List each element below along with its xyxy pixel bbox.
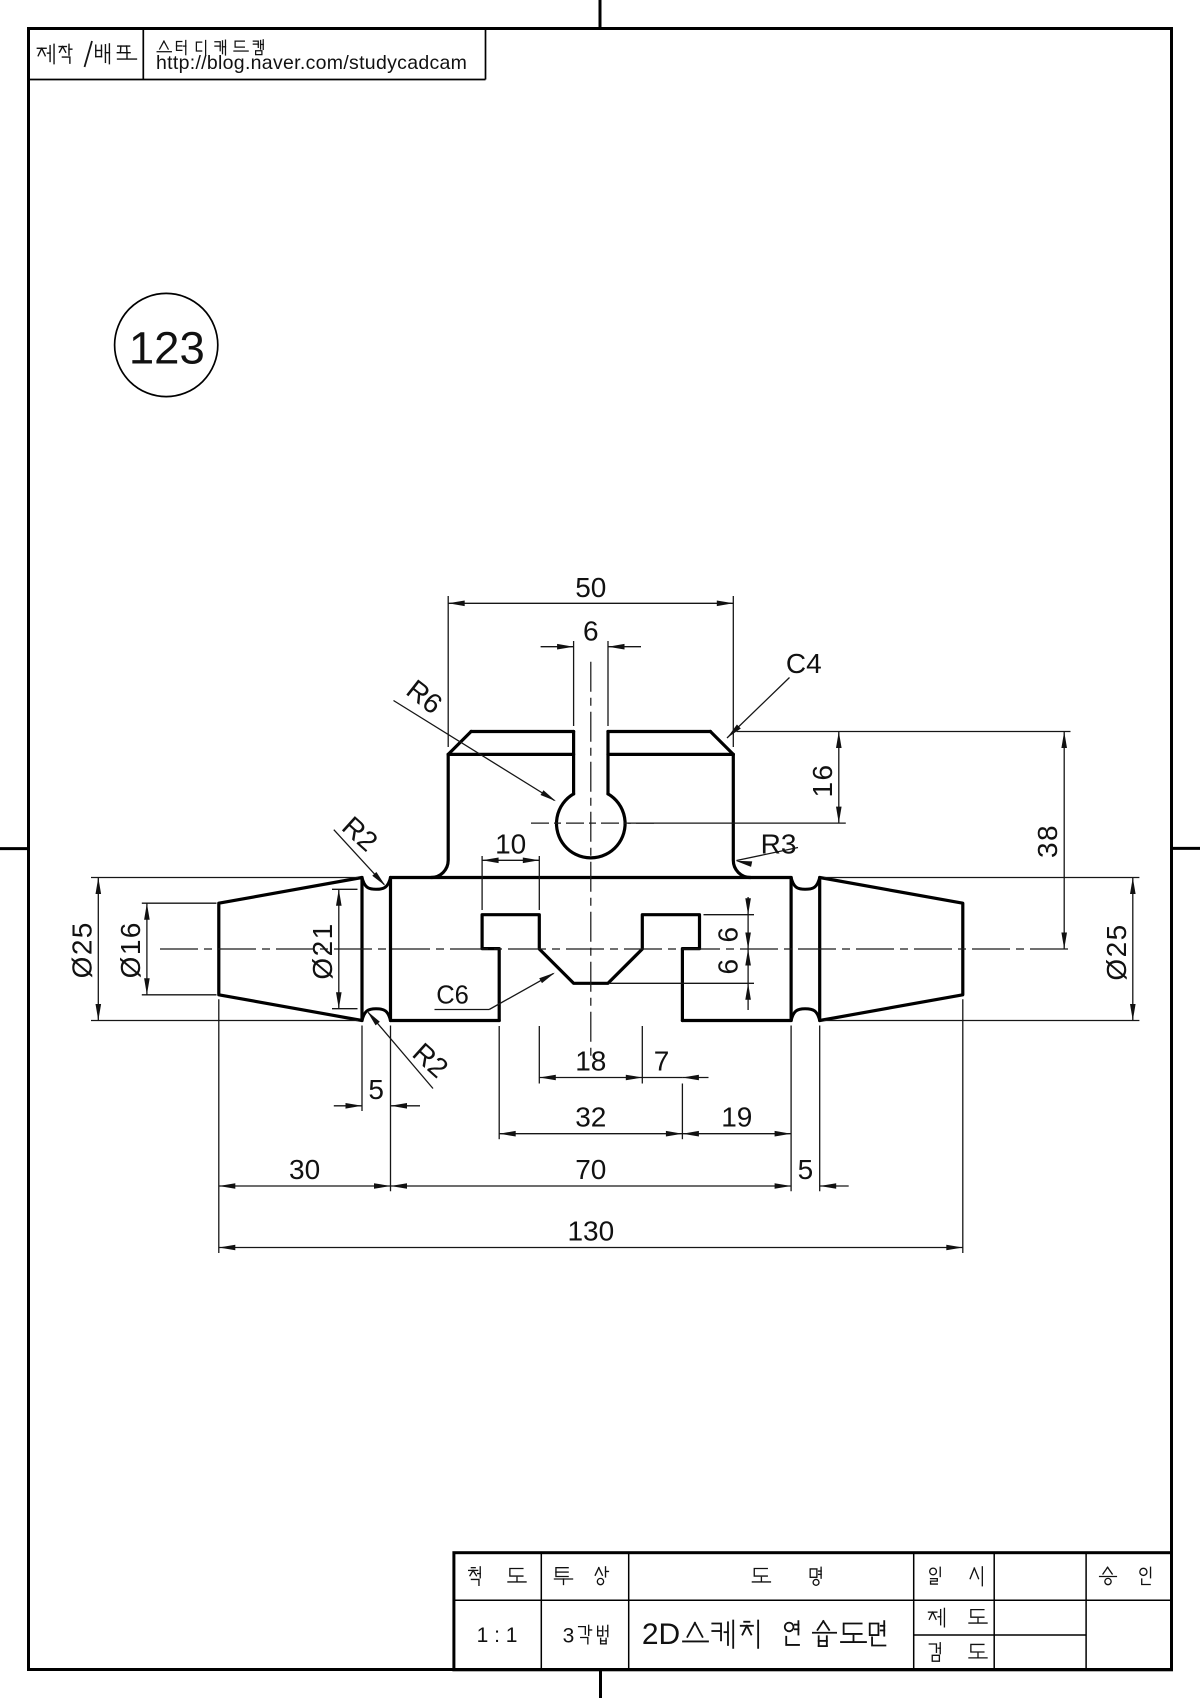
svg-text:Ø16: Ø16 <box>115 921 146 978</box>
dim diameter 21 <box>338 889 340 1008</box>
left taper outline <box>219 878 362 1021</box>
svg-text:C4: C4 <box>786 648 822 679</box>
flange left side with R3 fillet <box>431 754 448 877</box>
svg-text:19: 19 <box>721 1102 752 1133</box>
svg-text:70: 70 <box>575 1154 606 1185</box>
svg-text:Ø21: Ø21 <box>307 922 338 979</box>
dim 6 slot <box>541 646 574 648</box>
title table header 도명 <box>752 1569 770 1582</box>
dim diameter 16 extension lines <box>142 902 217 904</box>
right groove walls <box>791 878 820 1021</box>
vertical centerline through slot <box>590 662 592 1062</box>
centering tick right <box>1172 847 1200 850</box>
title table header 척도 <box>469 1567 481 1585</box>
dim diameter 16 <box>146 903 148 995</box>
dim 32 <box>499 1133 682 1135</box>
svg-text:123: 123 <box>129 323 205 374</box>
title table column lines <box>540 1553 542 1670</box>
dim 6 6 line and arrows <box>747 897 749 1010</box>
svg-text:2D: 2D <box>642 1618 680 1651</box>
dim 7 <box>642 1077 682 1079</box>
svg-text:3: 3 <box>563 1625 575 1648</box>
svg-text:5: 5 <box>798 1154 814 1185</box>
left groove relief top R2 <box>362 878 391 890</box>
label C4 with leader <box>727 678 790 739</box>
svg-text:18: 18 <box>575 1046 606 1077</box>
svg-text:5: 5 <box>368 1074 384 1105</box>
title table header 일시 <box>930 1567 941 1584</box>
svg-text:6: 6 <box>583 616 599 647</box>
svg-text:32: 32 <box>575 1102 606 1133</box>
flange right side with R3 fillet <box>733 754 750 877</box>
svg-text:6: 6 <box>713 958 744 975</box>
dim 30 <box>219 1185 391 1187</box>
dim 130 extension line right <box>962 999 964 1253</box>
dim left diameter 25 extension lines <box>91 877 358 879</box>
maker block studio name 스터디캐드캠 <box>157 41 171 52</box>
dim 50 extension lines <box>447 596 449 747</box>
svg-text:R3: R3 <box>761 829 797 860</box>
svg-text:6: 6 <box>713 926 744 943</box>
label R3 with leader <box>737 848 799 861</box>
flange chamfers C4 <box>448 732 733 755</box>
maker block label 제작/배포 <box>37 44 54 63</box>
label R2 upper with leader <box>334 830 384 885</box>
dim 32 / 19 extension lines <box>498 1026 500 1139</box>
dim right diameter 25 extension lines <box>824 877 1139 879</box>
dim 5 left extension lines <box>361 1026 363 1112</box>
title table row 제도 <box>928 1608 944 1626</box>
svg-text:http://blog.naver.com/studycad: http://blog.naver.com/studycadcam <box>156 52 467 74</box>
dim 30 / 70 / 5 extension lines <box>218 999 220 1253</box>
dim diameter 21 extension lines <box>332 888 358 890</box>
dim 16 lower extension line <box>628 822 846 824</box>
left groove walls <box>362 878 391 1021</box>
svg-text:Ø25: Ø25 <box>66 921 97 978</box>
svg-text:30: 30 <box>289 1154 320 1185</box>
dim 70 <box>391 1185 792 1187</box>
bottom T-slot profile with C6 chamfers <box>482 915 699 1021</box>
left groove relief bottom R2 <box>362 1009 391 1021</box>
maker block frame <box>29 79 486 81</box>
title table header 투상 <box>554 1568 572 1585</box>
dim 6 6 extension lines right of slot <box>704 914 755 916</box>
dim left diameter 25 <box>97 878 99 1021</box>
label R6 with leader <box>394 701 555 801</box>
centering tick left <box>0 847 29 850</box>
dim 18 <box>539 1077 642 1079</box>
title table row 검도 <box>929 1643 940 1661</box>
dim right diameter 25 <box>1132 878 1134 1021</box>
dim 18 extension lines <box>538 1026 540 1084</box>
slot circle horizontal centerline <box>531 822 654 824</box>
dim 10 extension lines <box>481 856 483 910</box>
title table outer frame <box>454 1553 1172 1670</box>
svg-text:Ø25: Ø25 <box>1101 923 1132 980</box>
dim 16 / 38 top extension line <box>737 731 1071 733</box>
flange top edge <box>471 730 710 733</box>
svg-text:7: 7 <box>654 1046 670 1077</box>
flange chamfer bottom line <box>448 753 733 756</box>
main horizontal centerline <box>160 948 1071 950</box>
svg-text:1 : 1: 1 : 1 <box>477 1624 518 1647</box>
svg-text:C6: C6 <box>436 981 469 1009</box>
svg-text:16: 16 <box>807 764 838 798</box>
centering tick bottom <box>599 1670 602 1698</box>
sheet number circle <box>115 293 218 396</box>
svg-text:50: 50 <box>575 572 606 603</box>
centering tick top <box>599 0 602 29</box>
title table header 승인 <box>1100 1567 1117 1584</box>
title table row lines <box>454 1599 1172 1601</box>
dim 130 <box>219 1247 963 1249</box>
dim 16 <box>838 732 840 824</box>
dim 50 <box>448 602 733 604</box>
svg-text:10: 10 <box>495 829 526 860</box>
label R2 lower with leader <box>368 1012 433 1088</box>
dim 6 slot extension lines <box>573 641 575 726</box>
body bottom edge <box>391 1019 792 1022</box>
body top edge <box>391 876 792 879</box>
right groove relief bottom R2 <box>791 1009 820 1021</box>
dim 5 right <box>820 1185 849 1187</box>
right taper outline <box>820 878 963 1021</box>
slot end circle R6 <box>557 794 626 858</box>
flange slot walls <box>574 732 608 794</box>
svg-text:130: 130 <box>567 1216 614 1247</box>
dim 5 left <box>334 1105 362 1107</box>
dim 19 <box>682 1133 791 1135</box>
dim 10 <box>482 859 539 861</box>
right groove relief top R2 <box>791 878 820 890</box>
dim 38 <box>1063 732 1065 950</box>
svg-text:38: 38 <box>1032 824 1063 858</box>
